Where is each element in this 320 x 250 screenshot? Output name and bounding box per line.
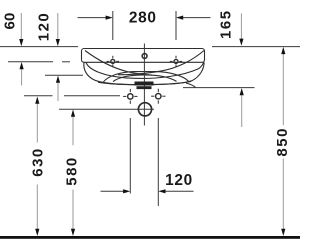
wire: 120-level extension line <box>45 74 83 76</box>
body bottom double line <box>98 82 191 85</box>
dim 630 line <box>36 103 38 143</box>
wire: lower fixing hole extension left <box>129 118 131 194</box>
tap hole left <box>107 56 119 67</box>
dimension 280 arrows <box>78 17 211 19</box>
dim 165 down arrow <box>240 14 242 41</box>
dim 165 up arrow <box>241 95 243 128</box>
overflow hole center <box>142 54 147 59</box>
svg-text:630: 630 <box>30 147 47 177</box>
drain fitting <box>135 82 154 86</box>
wire: drain level extension line <box>59 108 154 110</box>
lower fixing hole right <box>151 89 165 104</box>
dim 120 up arrow <box>57 82 59 101</box>
dim 120 down arrow <box>57 13 59 41</box>
centerline <box>143 44 145 126</box>
tap hole right <box>170 56 182 67</box>
svg-text:165: 165 <box>218 9 235 39</box>
wire: lower-hole level extension line a <box>24 95 53 97</box>
basin outline <box>82 49 205 88</box>
svg-text:120: 120 <box>36 12 53 42</box>
wire: lower-hole level extension line b <box>64 95 120 97</box>
inner bowl arc <box>86 63 204 79</box>
node: 280 extension line left <box>112 11 114 40</box>
rim box <box>82 49 205 63</box>
bowl sweep curve left-to-right <box>85 51 152 76</box>
drain fitting nut <box>137 86 152 89</box>
dim 580 line <box>72 116 74 145</box>
arrowhead 280 left (points right) <box>106 16 113 20</box>
siphon dome <box>103 72 189 83</box>
wire: basin bottom extension line right <box>183 87 255 89</box>
wire: top rim extension line left <box>0 46 78 48</box>
wire: tap-hole level dash <box>62 61 70 63</box>
svg-text:120: 120 <box>165 172 193 189</box>
bowl sweep curve right-to-left <box>118 51 204 75</box>
wire: tap-hole level extension line left <box>8 61 53 63</box>
dim 60 up arrow <box>21 69 23 86</box>
svg-text:850: 850 <box>274 127 291 157</box>
dim 60 down arrow <box>20 13 22 41</box>
wire: top rim extension line right <box>212 46 300 48</box>
wire: lower fixing hole extension right <box>157 118 159 206</box>
lower fixing hole left <box>123 89 137 104</box>
node: 280 extension line right <box>175 11 177 40</box>
dim 850 line <box>282 54 284 126</box>
body outer <box>84 62 204 84</box>
washbasin technical drawing <box>0 11 300 206</box>
svg-text:580: 580 <box>64 156 81 186</box>
siphon dome inner arc <box>113 75 177 82</box>
drain circle <box>138 103 151 116</box>
svg-text:280: 280 <box>129 10 157 27</box>
dim 120 bottom arrows <box>101 190 125 192</box>
arrowhead 280 right (points left) <box>176 16 183 20</box>
floor line <box>0 236 300 239</box>
svg-text:60: 60 <box>2 12 19 29</box>
body bottom right dip <box>186 83 196 88</box>
